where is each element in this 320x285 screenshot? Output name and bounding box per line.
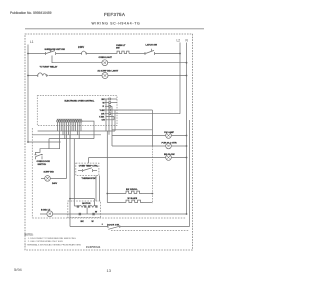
lamp PL7 <box>47 211 53 217</box>
wire fan row r1 <box>38 130 115 132</box>
svg-text:2. USE COPPER WIRE ONLY 600V: 2. USE COPPER WIRE ONLY 600V <box>28 241 64 243</box>
svg-text:OR: OR <box>102 120 106 122</box>
node junction L1-row1 <box>27 53 29 55</box>
switch S1 <box>46 50 56 55</box>
svg-text:WIRING SC-H94A4-TG: WIRING SC-H94A4-TG <box>92 22 141 26</box>
motor M1 windings <box>77 206 97 215</box>
oven door switch loop <box>36 139 61 155</box>
svg-text:Publication No. 5995410459: Publication No. 5995410459 <box>10 11 52 15</box>
header rule <box>25 28 204 30</box>
node junction N-row3 <box>186 75 188 77</box>
lamp PL6 <box>45 176 51 182</box>
svg-text:OVEN TEMP CTRL: OVEN TEMP CTRL <box>79 165 99 167</box>
svg-text:L1: L1 <box>30 40 34 44</box>
svg-text:SWITCH: SWITCH <box>38 164 47 166</box>
svg-text:OVEN LIGHT: OVEN LIGHT <box>99 57 113 59</box>
wire terminal nest verticals <box>106 99 115 146</box>
element R1 zigzag <box>116 51 129 53</box>
svg-text:BK: BK <box>102 99 106 101</box>
lamp PL4 <box>166 143 172 149</box>
EOC dashed box <box>37 96 117 126</box>
wire top row 1 <box>28 53 46 55</box>
svg-text:LATCH SW: LATCH SW <box>146 44 158 47</box>
relay K1 coil <box>36 73 48 77</box>
wire bottom run <box>70 226 108 228</box>
svg-text:Y-BK: Y-BK <box>100 110 106 112</box>
switch S4 <box>78 168 97 172</box>
svg-text:L2: L2 <box>177 39 181 43</box>
svg-text:240V: 240V <box>78 45 84 49</box>
wire interlink row <box>112 129 152 131</box>
wire N vertical <box>186 43 188 215</box>
svg-text:Y-BK: Y-BK <box>99 116 105 118</box>
wire element feed vertical <box>106 131 108 203</box>
wire comb exit <box>82 121 94 139</box>
wire fan pin drops <box>58 122 81 178</box>
wire bottom right riser <box>189 120 191 227</box>
svg-text:13: 13 <box>107 268 112 273</box>
switch S5 label <box>102 224 103 225</box>
svg-text:FEF375A: FEF375A <box>104 12 126 17</box>
wire fan row r4 to L1 <box>28 141 61 143</box>
svg-text:"5 TURN" RELAY: "5 TURN" RELAY <box>40 65 58 68</box>
svg-text:OR: OR <box>101 114 105 116</box>
wire lamp row A <box>112 135 187 137</box>
wire thermostat drops <box>96 176 100 202</box>
svg-text:3. TERMINALS SHOWN AS VIEWED: 3. TERMINALS SHOWN AS VIEWED FROM REAR V… <box>24 243 81 246</box>
connector P1 rail <box>57 118 82 120</box>
wire fan row r3 <box>49 138 94 140</box>
body box bottom dashed <box>111 230 189 232</box>
wire lamp row B <box>112 145 187 147</box>
svg-text:240V: 240V <box>52 182 58 185</box>
wire switch S1 tap <box>52 56 187 63</box>
svg-text:SURFACE UNIT SW: SURFACE UNIT SW <box>45 48 66 51</box>
wire element broil <box>107 193 126 195</box>
svg-text:5/94: 5/94 <box>14 267 23 272</box>
node junction L2-row1 <box>179 53 181 55</box>
wire lamp PL6 row <box>41 177 67 179</box>
motor dashed box <box>68 201 101 218</box>
svg-text:P-F375ST-04: P-F375ST-04 <box>86 246 101 249</box>
svg-text:W BAKE: W BAKE <box>128 197 138 200</box>
svg-text:ELECTRONIC OVEN CONTROL: ELECTRONIC OVEN CONTROL <box>65 100 95 102</box>
svg-text:BK BROIL: BK BROIL <box>126 189 138 191</box>
wire lamp row C <box>89 158 187 164</box>
svg-text:MOTOR: MOTOR <box>82 203 91 205</box>
connector P1 pins <box>57 119 82 122</box>
lamp PL1 <box>102 60 108 66</box>
element bake zigzag <box>126 200 143 202</box>
wire fan row r2 <box>32 134 101 136</box>
wire row 3 <box>28 75 36 77</box>
node junction L1-row3 <box>27 75 29 77</box>
svg-text:DOOR SW: DOOR SW <box>107 225 120 227</box>
switch S5 <box>108 225 120 229</box>
svg-text:#1 SURF IND LIGHT: #1 SURF IND LIGHT <box>98 70 119 72</box>
lamp PL2 <box>102 73 108 79</box>
wire motor wrap <box>70 135 94 227</box>
wire series link vertical <box>151 110 153 146</box>
svg-text:1. DISCONNECT POWER BEFORE SE: 1. DISCONNECT POWER BEFORE SERVICING <box>28 238 76 240</box>
element broil zigzag <box>126 191 142 193</box>
console box dashed left <box>31 128 33 218</box>
lamp PL3 <box>166 133 172 139</box>
lamp PL5 <box>166 155 172 161</box>
wire L2 vertical <box>179 43 181 114</box>
wire element bake <box>107 202 126 204</box>
svg-text:THERMOSTAT: THERMOSTAT <box>82 177 98 180</box>
thermostat dashed box <box>76 163 99 175</box>
svg-text:NOTES:: NOTES: <box>24 233 33 236</box>
svg-text:SURF IND: SURF IND <box>44 172 55 174</box>
svg-text:BK: BK <box>81 221 85 223</box>
switch S2 <box>145 49 155 55</box>
wire L1 vertical <box>27 45 29 143</box>
node junction N-row2 <box>186 62 188 64</box>
switch S3 <box>35 154 44 159</box>
wire lamp PL7 row <box>40 213 187 215</box>
thermal limiter TL1 <box>80 51 87 55</box>
console box dashed bottom <box>32 217 186 219</box>
outer dashed border <box>25 34 193 250</box>
